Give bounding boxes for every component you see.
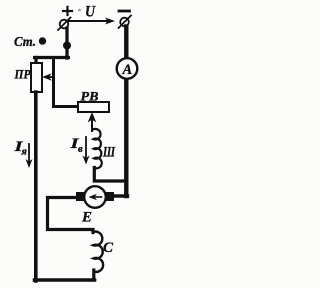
wire armature left brush to series winding C [48, 198, 94, 233]
svg-text:Ст.: Ст. [14, 35, 36, 50]
left wire (armature circuit) [34, 92, 38, 281]
arrow Iв (field current) [83, 137, 90, 165]
wire plus terminal down to junction [65, 28, 68, 58]
wire Ш bottom to right wire [94, 168, 126, 182]
terminal minus [119, 16, 132, 29]
winding Ш (shunt field coil) [93, 129, 102, 168]
svg-text:ПР: ПР [14, 67, 32, 82]
brush right [106, 192, 114, 201]
wiper arrow of ПР [42, 73, 53, 81]
arrow U (voltage arrow) [69, 18, 115, 25]
junction node dot [63, 42, 71, 50]
svg-text:Е: Е [81, 210, 92, 226]
rheostat ПР (starting rheostat) [31, 63, 42, 92]
ammeter A [117, 58, 138, 79]
svg-text:я: я [21, 147, 28, 158]
wire C bottom to bottom rail [92, 270, 95, 280]
arrow Iя (armature current) [26, 144, 33, 168]
brush left [76, 192, 84, 201]
wire right wire to armature right brush [113, 194, 128, 197]
armature E (dc machine) [76, 186, 114, 208]
svg-text:С: С [103, 240, 114, 256]
wire stub into ПР [34, 58, 37, 65]
wire junction left to ПР top [35, 56, 69, 59]
rheostat РВ (field regulator) [78, 102, 109, 112]
svg-text:РВ: РВ [81, 89, 99, 104]
terminal plus [58, 18, 71, 31]
wire field branch from top wire down to РВ [54, 59, 78, 107]
label minus [119, 10, 130, 13]
node dot of Ст. [39, 37, 46, 44]
series winding C coil [93, 232, 103, 272]
svg-text:А: А [122, 62, 133, 78]
emf arrow inside armature [93, 196, 102, 198]
bottom wire [35, 278, 95, 282]
wire right side from minus terminal down [124, 27, 128, 197]
svg-text:U: U [85, 4, 96, 21]
label + (plus of supply) [63, 7, 72, 15]
svg-text:Ш: Ш [102, 145, 115, 161]
wiper arrow of РВ (up arrow) [88, 112, 97, 131]
svg-text:в: в [78, 144, 83, 155]
